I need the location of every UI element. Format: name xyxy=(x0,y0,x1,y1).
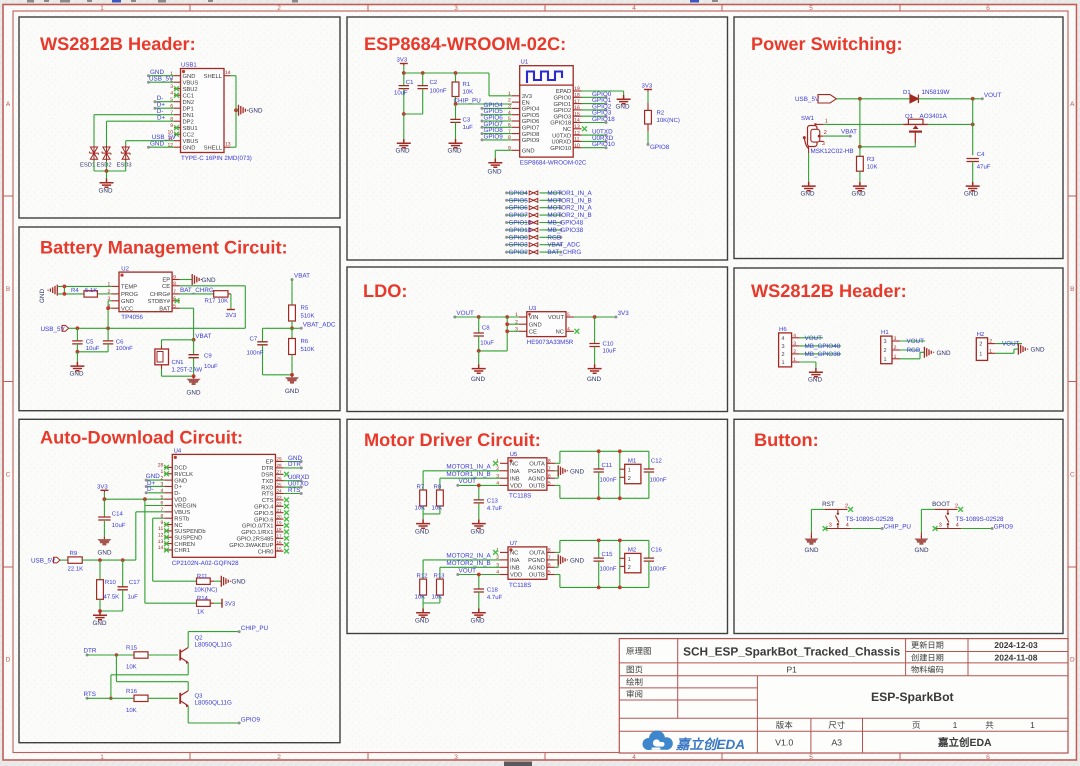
no-connect X at U4 GPIO.3WAKEUP xyxy=(284,542,289,547)
U4 pin 23 (CTS) xyxy=(276,499,284,501)
svg-text:GND: GND xyxy=(808,377,822,384)
svg-text:1uF: 1uF xyxy=(128,594,139,601)
U1 pin 10 (GPIO10) xyxy=(573,147,581,149)
USB1 pin 2 (VBUS) xyxy=(174,81,181,83)
svg-text:2: 2 xyxy=(979,342,982,348)
svg-text:U0RXD: U0RXD xyxy=(552,139,572,146)
svg-text:RI/CLK: RI/CLK xyxy=(174,471,193,478)
ground GND below C14 (arrow) xyxy=(103,537,105,540)
svg-text:2: 2 xyxy=(824,130,827,136)
junction divider to R3 xyxy=(858,145,862,149)
wire VDD node down to R14 row xyxy=(144,506,146,604)
logo JLC EDA cloud xyxy=(643,731,673,751)
svg-text:VOUT: VOUT xyxy=(548,314,565,321)
wire Q1 drain to VOUT column xyxy=(928,123,973,125)
svg-text:GPIO2: GPIO2 xyxy=(553,107,571,114)
svg-text:24: 24 xyxy=(277,489,283,494)
svg-text:CTS: CTS xyxy=(262,497,274,504)
svg-text:OUTA: OUTA xyxy=(529,550,545,557)
svg-text:GPIO8: GPIO8 xyxy=(522,131,540,138)
net label GPIO7 on U1 pin 6 xyxy=(482,126,512,128)
svg-text:10uF: 10uF xyxy=(112,522,126,529)
svg-text:GPIO8: GPIO8 xyxy=(650,144,670,151)
wire divider to C7 xyxy=(263,327,293,329)
U4 pin 4 (D-) xyxy=(164,492,172,494)
svg-text:GPIO4: GPIO4 xyxy=(522,106,540,113)
no-connect X at U4 SUSPENDb xyxy=(164,529,169,534)
cut-off toolbar text marks at top edge xyxy=(27,0,718,3)
transistor Q2 L8050QL11G (NPN) xyxy=(179,650,181,661)
svg-text:NC: NC xyxy=(556,329,564,336)
svg-text:C2: C2 xyxy=(430,79,438,86)
junction at C10 xyxy=(593,315,597,319)
svg-text:INA: INA xyxy=(510,469,520,475)
no-connect X U7 NC pin xyxy=(493,550,498,555)
svg-text:GPIO.4: GPIO.4 xyxy=(254,504,274,511)
frame column tick 2 top xyxy=(367,5,369,12)
svg-text:VDD: VDD xyxy=(174,497,186,503)
USB1 pin 4 (CC1) xyxy=(174,94,181,96)
ground GND below R12 xyxy=(422,603,424,609)
svg-text:ESD3: ESD3 xyxy=(117,162,132,169)
IC U3 body xyxy=(527,312,566,337)
net tie GPIO3 to VBAT_ADC xyxy=(507,244,528,246)
svg-text:Battery Management Circuit:: Battery Management Circuit: xyxy=(40,238,288,258)
wire BAT to VBAT node xyxy=(180,307,194,309)
no-connect X at U4 GPIO.5 xyxy=(284,510,289,515)
svg-text:VOUT: VOUT xyxy=(456,310,474,317)
wire shell pins to GND xyxy=(231,75,237,77)
net label D+ pin6 xyxy=(155,107,174,109)
U4 pin 2 (GND) xyxy=(164,479,172,481)
svg-text:GPIO9: GPIO9 xyxy=(484,133,504,140)
net label GND pin12 xyxy=(149,146,175,148)
no-connect X at U4 GPIO.4 xyxy=(284,504,289,509)
no-connect X pin3 SBU2 xyxy=(174,86,179,91)
svg-text:VOUT: VOUT xyxy=(459,567,477,574)
svg-text:DN1: DN1 xyxy=(183,113,195,119)
capacitor C3 xyxy=(455,104,457,119)
svg-text:17: 17 xyxy=(277,534,283,539)
svg-text:A: A xyxy=(6,101,11,108)
ground flag GND at H2 pin1 xyxy=(996,352,1014,354)
junction at C3 top xyxy=(454,102,458,106)
svg-text:VOUT: VOUT xyxy=(459,478,477,485)
svg-text:47.5K: 47.5K xyxy=(104,594,120,601)
svg-text:MB_GPIO48: MB_GPIO48 xyxy=(547,220,583,227)
section box Power Switching xyxy=(734,17,1063,259)
title block outer border xyxy=(619,639,1068,753)
net label U0RXD on U1 pin 11 xyxy=(582,140,607,142)
U7 pin 7 (PGND) xyxy=(547,559,555,561)
net label D- on U4 xyxy=(146,492,164,494)
svg-text:3: 3 xyxy=(454,754,458,761)
svg-text:LDO:: LDO: xyxy=(363,281,407,301)
resistor R8 10K (INB pulldown) xyxy=(439,478,441,490)
svg-text:DTR: DTR xyxy=(262,466,274,472)
wire D1 to VOUT xyxy=(918,98,982,100)
capacitor C6 xyxy=(107,328,109,341)
svg-text:1: 1 xyxy=(515,312,518,318)
svg-text:创建日期: 创建日期 xyxy=(911,654,944,663)
no-connect X at U3 NC xyxy=(575,329,580,334)
svg-text:3: 3 xyxy=(454,5,458,12)
svg-text:USB_5V: USB_5V xyxy=(31,558,56,565)
net tie GPIO7 to MOTOR2_IN_B xyxy=(507,214,528,216)
svg-text:MOTOR2_IN_A: MOTOR2_IN_A xyxy=(446,553,491,560)
wire CE to VCC rail xyxy=(180,285,245,287)
U4 pin 20 (GPIO.6) xyxy=(276,518,284,520)
U4 pin 8 (RSTb) xyxy=(164,517,172,519)
ground GND below C13 xyxy=(472,519,486,528)
net tie GPIO2 to BAT_CHRG xyxy=(507,251,528,253)
svg-text:MOTOR2_IN_A: MOTOR2_IN_A xyxy=(547,205,592,212)
svg-text:AGND: AGND xyxy=(528,565,545,572)
svg-text:1: 1 xyxy=(100,5,104,12)
junction at RTS wire xyxy=(109,697,112,700)
ground GND below C1 xyxy=(403,114,405,139)
ground flag GND at R11 xyxy=(210,580,214,582)
svg-text:GPIO9: GPIO9 xyxy=(994,524,1014,531)
svg-text:H2: H2 xyxy=(977,331,985,338)
H6 pin 1 xyxy=(792,361,800,363)
connector CN1 body xyxy=(155,349,169,365)
svg-text:10K: 10K xyxy=(126,664,137,671)
svg-text:R16: R16 xyxy=(126,688,138,695)
svg-text:10uF: 10uF xyxy=(394,90,408,97)
svg-text:DN2: DN2 xyxy=(183,99,195,106)
svg-text:5: 5 xyxy=(173,303,176,309)
svg-text:GPIO1: GPIO1 xyxy=(553,101,571,108)
svg-text:R1: R1 xyxy=(463,81,471,88)
net stub VOUT at U5 VDD xyxy=(458,484,500,486)
svg-text:VBUS: VBUS xyxy=(183,138,199,145)
svg-text:25: 25 xyxy=(277,482,283,487)
U5 pin 8 (OUTA) xyxy=(547,462,555,464)
svg-text:D-: D- xyxy=(174,491,180,497)
svg-text:8: 8 xyxy=(548,459,551,465)
wire C5 C6 bottoms xyxy=(77,351,108,353)
svg-text:3V3: 3V3 xyxy=(522,93,532,100)
svg-text:RTS: RTS xyxy=(288,487,300,494)
H2 pin 1 xyxy=(988,352,996,354)
svg-text:2: 2 xyxy=(955,503,958,509)
U4 pin 13 (CHREN) xyxy=(164,543,172,545)
H1 pin 1 xyxy=(892,358,900,360)
ground GND below C3 xyxy=(449,139,463,148)
no-connect X at U4 GPIO.1/RX1 xyxy=(284,530,289,535)
svg-text:11: 11 xyxy=(574,137,579,143)
svg-text:8: 8 xyxy=(173,281,176,287)
wire CE/GND loop xyxy=(506,317,508,351)
frame row tick 1 right xyxy=(1068,195,1077,197)
U1 pin 2 (EN) xyxy=(512,101,520,103)
svg-text:GND: GND xyxy=(285,388,299,395)
svg-text:C10: C10 xyxy=(603,340,615,347)
U1 pin 12 (U0TXD) xyxy=(573,134,581,136)
transistor Q3 L8050QL11G (NPN) xyxy=(179,693,181,704)
H6 pin 4 xyxy=(792,337,800,339)
svg-text:D: D xyxy=(6,657,11,664)
svg-text:C18: C18 xyxy=(487,587,499,594)
svg-text:ESP-SparkBot: ESP-SparkBot xyxy=(871,690,954,704)
frame column tick 5 bottom xyxy=(899,753,901,761)
ground GND below H6 xyxy=(809,368,823,377)
U4 pin 27 (DSR) xyxy=(276,473,284,475)
svg-text:10K: 10K xyxy=(867,164,878,171)
resistor R1 xyxy=(455,73,457,82)
svg-text:GND: GND xyxy=(964,190,978,197)
svg-text:TXD: TXD xyxy=(262,479,274,485)
svg-text:C16: C16 xyxy=(651,546,663,553)
frame row tick 2 right xyxy=(1068,381,1077,383)
svg-text:物料编码: 物料编码 xyxy=(911,666,944,675)
svg-text:P1: P1 xyxy=(786,665,797,675)
ground GND below BOOT (arrow) xyxy=(920,536,922,539)
junction C1 bottom xyxy=(402,112,406,116)
svg-text:VBUS: VBUS xyxy=(183,79,199,86)
svg-text:GPIO.2RS485: GPIO.2RS485 xyxy=(236,536,273,543)
svg-text:INB: INB xyxy=(510,476,520,482)
svg-text:3: 3 xyxy=(884,339,887,345)
svg-text:2: 2 xyxy=(508,97,511,103)
svg-text:10K: 10K xyxy=(218,297,229,304)
svg-text:4: 4 xyxy=(782,336,785,342)
svg-text:MB_GPIO38: MB_GPIO38 xyxy=(805,351,841,358)
svg-text:8: 8 xyxy=(548,548,551,554)
svg-text:L8050QL11G: L8050QL11G xyxy=(195,700,232,707)
svg-text:GND: GND xyxy=(471,528,485,535)
svg-text:1K: 1K xyxy=(197,609,204,616)
svg-text:嘉立创EDA: 嘉立创EDA xyxy=(675,737,745,752)
svg-text:SHELL: SHELL xyxy=(204,73,223,80)
svg-text:1: 1 xyxy=(628,468,631,474)
USB1 pin 13 SHELL xyxy=(224,146,231,148)
svg-text:19: 19 xyxy=(574,86,580,92)
svg-text:B: B xyxy=(1070,286,1074,293)
U1 pin 15 (GPIO3) xyxy=(573,115,581,117)
ground GND below R6 (arrow) xyxy=(291,375,293,378)
wire USB_5V rail to D1 xyxy=(836,98,910,100)
U5 pin 1 (NC) xyxy=(500,462,508,464)
svg-text:5: 5 xyxy=(567,312,570,318)
svg-text:U4: U4 xyxy=(174,447,182,454)
svg-text:C14: C14 xyxy=(112,510,124,517)
svg-text:29: 29 xyxy=(277,457,283,462)
U4 pin 14 (CHR1) xyxy=(164,549,172,551)
U4 pin 1 (RI/CLK) xyxy=(164,473,172,475)
junction TEMP/PROG tie xyxy=(63,286,65,294)
wire CN1 bottom to ground rail xyxy=(161,365,163,369)
net label MOTOR1_IN_A on INA xyxy=(423,470,500,472)
svg-text:15: 15 xyxy=(574,111,580,117)
wire 3V3 rail xyxy=(403,66,405,73)
wire gate-divider vertical xyxy=(859,99,861,147)
svg-text:GPIO9: GPIO9 xyxy=(241,717,261,724)
svg-text:SUSPENDb: SUSPENDb xyxy=(174,528,205,535)
svg-text:10uF: 10uF xyxy=(603,347,617,354)
svg-text:100nF: 100nF xyxy=(650,477,667,484)
capacitor C5 xyxy=(76,328,78,341)
net label DTR on U4 pin 28 xyxy=(284,467,302,469)
U4 pin 11 (SUSPENDb) xyxy=(164,530,172,532)
svg-text:1: 1 xyxy=(100,754,104,761)
net label GND on U4 pin 29 xyxy=(284,461,302,463)
wire USB_5V to R9 xyxy=(60,559,68,561)
svg-text:NC: NC xyxy=(174,522,182,529)
svg-text:CE: CE xyxy=(529,329,537,336)
wire VBUS to R9 node xyxy=(136,511,165,513)
U7 pin 4 (VDD) xyxy=(500,574,508,576)
motor connector M2 xyxy=(619,540,621,587)
svg-text:11: 11 xyxy=(158,526,163,532)
capacitor C11 100nF xyxy=(598,451,600,469)
net stub RTS to R16 xyxy=(86,697,89,700)
USB1 pin 14 SHELL xyxy=(224,75,231,77)
svg-text:14: 14 xyxy=(574,118,580,124)
U4 pin 21 (GPIO.5) xyxy=(276,512,284,514)
svg-text:3V3: 3V3 xyxy=(618,310,630,317)
svg-text:GPIO6: GPIO6 xyxy=(522,118,540,125)
wire OUTA to top rail xyxy=(555,462,560,464)
svg-text:MB_GPIO38: MB_GPIO38 xyxy=(547,227,583,234)
svg-text:6: 6 xyxy=(986,5,990,12)
svg-text:15: 15 xyxy=(277,546,283,551)
ground flag GND at PGND/AGND xyxy=(555,559,558,561)
U4 pin 9 (NC) xyxy=(164,524,172,526)
svg-text:2024-11-08: 2024-11-08 xyxy=(994,653,1037,663)
net label MB_GPIO48 on H6 pin 3 xyxy=(800,345,841,347)
net label GPIO18 on U1 pin 14 xyxy=(582,122,607,124)
svg-text:510K: 510K xyxy=(301,346,315,353)
svg-text:10uF: 10uF xyxy=(480,340,494,347)
svg-text:3: 3 xyxy=(829,523,832,529)
svg-text:RXD: RXD xyxy=(261,485,273,491)
net stub VBAT_ADC xyxy=(292,327,301,329)
frame row tick 3 right xyxy=(1068,566,1077,568)
U1 pin 9 GND xyxy=(512,149,520,151)
svg-text:R8: R8 xyxy=(434,483,442,490)
svg-text:5: 5 xyxy=(809,5,813,12)
svg-text:CN1: CN1 xyxy=(172,359,185,366)
U1 pin 7 (GPIO8) xyxy=(512,133,520,135)
net stub GPIO9 at BOOT xyxy=(961,528,992,530)
svg-text:1: 1 xyxy=(979,351,982,357)
svg-text:VDD: VDD xyxy=(510,573,522,579)
svg-text:18: 18 xyxy=(574,93,580,99)
svg-text:100nF: 100nF xyxy=(247,349,264,356)
resistor R12 10K (INA pulldown) xyxy=(422,560,424,579)
svg-text:GPIO5: GPIO5 xyxy=(522,112,540,119)
U5 pin 4 (VDD) xyxy=(500,484,508,486)
ground flag GND at PGND/AGND xyxy=(555,470,558,472)
capacitor C12 100nF xyxy=(648,451,650,469)
ground flag at U2 EP xyxy=(180,279,192,281)
resistor R6 510K xyxy=(291,328,293,338)
wire VREGIN tie xyxy=(144,499,146,505)
junction rail/gate divider xyxy=(858,97,862,101)
svg-text:A: A xyxy=(1070,101,1075,108)
USB1 pin 10 (CC2) xyxy=(174,133,181,135)
svg-text:GPIO18: GPIO18 xyxy=(550,120,571,127)
no-connect X at U4 RI/CLK xyxy=(164,471,169,476)
svg-text:R6: R6 xyxy=(301,338,309,345)
junction DTR at Q3-collector column xyxy=(115,653,118,656)
svg-text:10K: 10K xyxy=(432,504,443,511)
U5 pin 5 (OUTB) xyxy=(547,484,555,486)
svg-text:7: 7 xyxy=(548,466,551,472)
svg-text:RST: RST xyxy=(822,501,835,508)
svg-text:D1: D1 xyxy=(903,89,911,96)
capacitor C13 4.7uF xyxy=(478,485,480,500)
module U1 body xyxy=(520,66,574,157)
net tie GPIO4 to MOTOR1_IN_A xyxy=(507,192,528,194)
svg-text:2: 2 xyxy=(628,565,631,571)
svg-text:2: 2 xyxy=(793,349,796,355)
svg-text:GND: GND xyxy=(98,549,112,556)
net label USB_5V pin2 xyxy=(149,81,175,83)
capacitor C7 100nF xyxy=(262,328,264,342)
U2 pin 5 (BAT) xyxy=(172,307,180,309)
svg-text:MOTOR1_IN_B: MOTOR1_IN_B xyxy=(446,471,490,478)
svg-text:GND: GND xyxy=(587,376,601,383)
svg-text:GPIO7: GPIO7 xyxy=(522,125,540,132)
svg-text:CC1: CC1 xyxy=(183,92,195,99)
net stub DTR to R15 xyxy=(86,654,89,657)
capacitor C17 1uF xyxy=(122,560,124,587)
svg-text:3V3: 3V3 xyxy=(642,83,653,90)
U2 pin 4 (VCC) xyxy=(111,307,119,309)
svg-text:V1.0: V1.0 xyxy=(775,737,793,747)
svg-text:BOOT: BOOT xyxy=(932,501,950,508)
H1 pin 3 xyxy=(892,340,900,342)
resistor R4 5.1K xyxy=(84,291,97,297)
svg-text:TS-1089S-02528: TS-1089S-02528 xyxy=(956,516,1004,523)
svg-text:H1: H1 xyxy=(881,329,889,336)
U5 pin 3 (INB) xyxy=(500,477,508,479)
svg-text:TP4056: TP4056 xyxy=(121,314,143,321)
svg-text:C3: C3 xyxy=(463,117,471,124)
svg-text:C11: C11 xyxy=(602,462,613,469)
USB1 pin 8 (DP2) xyxy=(174,120,181,122)
svg-text:5.1K: 5.1K xyxy=(85,287,97,294)
net label MOTOR2_IN_A on INA xyxy=(423,559,500,561)
U1 pin 19 (EPAD) xyxy=(573,90,581,92)
svg-text:RSTb: RSTb xyxy=(174,515,189,522)
junction R9 rail at R10 xyxy=(98,558,102,562)
U4 pin 29 (EP) xyxy=(276,461,284,463)
svg-text:审阅: 审阅 xyxy=(626,689,643,699)
svg-text:1: 1 xyxy=(894,354,897,360)
wire R9 to VBUS column xyxy=(82,559,136,561)
wire BOOT to ground xyxy=(920,509,922,532)
U4 pin 5 (VDD) xyxy=(164,498,172,500)
power flag 3V3 at R17 xyxy=(228,293,231,295)
svg-text:6: 6 xyxy=(986,754,990,761)
svg-text:Power Switching:: Power Switching: xyxy=(751,34,903,54)
USB1 pin 1 (GND) xyxy=(174,75,181,77)
wire OUTB to bottom rail xyxy=(555,484,560,486)
svg-text:尺寸: 尺寸 xyxy=(828,720,846,730)
svg-text:R17: R17 xyxy=(205,297,217,304)
section box ESP8684-WROOM-02C xyxy=(347,17,728,260)
svg-text:10: 10 xyxy=(574,143,580,149)
svg-text:1: 1 xyxy=(989,348,992,354)
svg-text:L8050QL11G: L8050QL11G xyxy=(195,642,232,649)
U7 pin 8 (OUTA) xyxy=(547,551,555,553)
svg-text:Button:: Button: xyxy=(754,430,819,450)
resistor R11 10K(NC) xyxy=(197,578,211,584)
